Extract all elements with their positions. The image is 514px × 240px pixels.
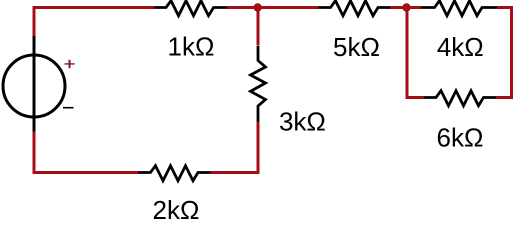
svg-text:2kΩ: 2kΩ — [153, 195, 200, 219]
wire from node A down to R3 — [257, 8, 260, 46]
resistor R3 3kOhm vertical — [251, 46, 266, 122]
resistor R6 6kOhm — [423, 91, 496, 106]
svg-text:4kΩ: 4kΩ — [437, 32, 484, 62]
svg-text:1kΩ: 1kΩ — [168, 32, 215, 62]
wire from node B down to R6 left lead — [407, 8, 423, 98]
resistor R4 4kOhm — [421, 1, 497, 16]
wire right from R4 down right side to R6 — [497, 8, 512, 98]
node A junction dot — [254, 3, 262, 11]
node B junction dot — [402, 3, 410, 11]
wire top between R5 and R4 through node B — [390, 6, 422, 9]
resistor R5 5kOhm — [319, 1, 391, 16]
wire from R3 bottom to bottom rail to R2 — [211, 122, 259, 173]
plus terminal label — [65, 60, 75, 68]
wire bottom-left from R2 to source — [34, 132, 138, 173]
wire top between R1 and R5 through node A — [227, 6, 319, 9]
minus terminal label — [63, 107, 74, 109]
svg-text:3kΩ: 3kΩ — [279, 107, 326, 137]
svg-text:5kΩ: 5kΩ — [333, 32, 380, 62]
voltage source V1 — [3, 36, 65, 132]
svg-text:6kΩ: 6kΩ — [437, 123, 484, 153]
resistor R1 1kOhm — [155, 1, 228, 16]
resistor R2 2kOhm — [138, 166, 211, 181]
wire top-left from source to R1 — [34, 8, 155, 37]
